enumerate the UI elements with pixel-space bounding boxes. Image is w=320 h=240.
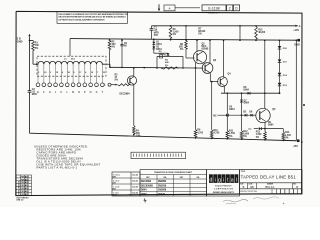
pin 1 of DL1 [38, 72, 40, 74]
resistor R11 1,500 [226, 93, 236, 139]
diode D6 [249, 111, 253, 116]
wire Q5 emitter [264, 123, 266, 129]
wire D2 to D3 [154, 49, 168, 53]
wire GND input to R1 [30, 40, 34, 42]
svg-text:R14: R14 [285, 131, 290, 134]
signature table [112, 172, 140, 196]
capacitor C6 68 [120, 39, 127, 68]
resistor R1 100 [32, 41, 40, 52]
svg-text:D664: D664 [156, 43, 162, 46]
node Q4 emitter line junction R11 [226, 92, 228, 94]
capacitor C1 .47 MFD 50V [150, 26, 160, 39]
diode chain D11 [278, 49, 288, 64]
svg-text:5%: 5% [198, 34, 201, 36]
resistor R10 4,700 [210, 82, 220, 140]
capacitor C2 .01 MFD [28, 89, 38, 96]
resistor R8 820 [179, 39, 195, 58]
svg-text:P: P [84, 90, 86, 94]
svg-text:NC: NC [213, 115, 217, 117]
diode chain D13 [278, 76, 288, 94]
diode D9 D664 output clamp [249, 122, 284, 131]
inductor coil of DL1 [37, 61, 105, 64]
svg-text:l: l [236, 177, 237, 183]
wire right column to bus [295, 39, 297, 140]
resistor R4 560 [133, 126, 142, 138]
svg-text:5%: 5% [229, 136, 232, 138]
svg-text:GND: GND [294, 43, 300, 46]
revision number box E-1198 [202, 5, 226, 15]
terminal L [65, 83, 69, 94]
pin 15 of DL1 [103, 72, 106, 74]
revision box A [164, 5, 175, 11]
wire Q2 emitter [195, 63, 197, 68]
wire NC stub [213, 115, 256, 117]
notice box [57, 12, 129, 24]
pin 3 of DL1 [50, 72, 52, 74]
terminal S [95, 83, 99, 94]
wire tap 11 of DL1 [95, 64, 97, 83]
terminal 2D GND input [17, 34, 31, 44]
svg-text:6209B: 6209B [202, 48, 209, 50]
node DL1 output junction [109, 67, 111, 69]
wire -15V bus [30, 133, 297, 141]
svg-text:DEC2894: DEC2894 [141, 180, 152, 183]
diode D5 [243, 111, 247, 116]
wire tap 9 of DL1 [84, 64, 86, 83]
notes text block [34, 144, 101, 169]
wire Q1 emitter to R4 [133, 85, 135, 126]
svg-text:1: 1 [28, 188, 29, 190]
wire GND rail [70, 39, 296, 57]
pin 17 of DL1 [79, 72, 82, 74]
svg-text:11-4-63: 11-4-63 [132, 186, 138, 189]
node diode chain junction [279, 92, 281, 94]
transistor Q4 DEC6209B [218, 72, 232, 86]
pin 18 of DL1 [68, 72, 71, 74]
resistor R2 100 [108, 39, 116, 67]
terminal J [54, 83, 58, 94]
node GND input junction [29, 40, 31, 42]
capacitor C3 82 [160, 54, 167, 58]
wire tap 5 of DL1 [60, 64, 62, 83]
wire R5 C3 section [156, 56, 184, 68]
svg-text:R: R [90, 90, 92, 94]
pin 7 of DL1 [97, 72, 99, 74]
svg-text:48,200: 48,200 [258, 31, 266, 34]
node D7 junction [241, 114, 243, 116]
resistor R5 680 [161, 60, 179, 70]
svg-text:R. Hisle: R. Hisle [112, 181, 120, 183]
wire Q1 collector [133, 67, 135, 76]
pin 5 of DL1 [73, 72, 75, 74]
svg-text:E-1198: E-1198 [208, 7, 219, 11]
svg-text:2N2894: 2N2894 [158, 180, 167, 183]
svg-text:5%: 5% [173, 34, 176, 36]
revision box D [233, 5, 239, 11]
svg-text:B: B [301, 141, 303, 144]
svg-text:DEC6209B: DEC6209B [141, 185, 153, 187]
svg-text:D664: D664 [268, 123, 274, 126]
resistor R7 68000 [185, 25, 206, 40]
svg-text:4,700: 4,700 [214, 132, 220, 135]
wire C2 to -15V bus [29, 92, 31, 133]
svg-text:-15V: -15V [293, 145, 299, 148]
svg-text:J. Smith: J. Smith [113, 186, 119, 189]
svg-text:DRB 110: DRB 110 [17, 200, 24, 202]
diode D1 D664 [152, 39, 162, 46]
wire DL1 output [105, 64, 196, 69]
svg-text:N. Burke: N. Burke [112, 175, 120, 177]
svg-text:S: S [96, 90, 98, 94]
svg-text:K: K [60, 90, 62, 94]
terminal P [83, 83, 87, 94]
terminal A +10V [293, 25, 300, 32]
dec form note [17, 197, 30, 201]
wire tap 2 of DL1 [43, 64, 45, 83]
diode D2 D664 [152, 44, 162, 51]
svg-text:5%: 5% [165, 65, 168, 67]
wire +10V rail [152, 25, 297, 27]
svg-text:1: 1 [28, 182, 29, 184]
svg-text:D664: D664 [244, 89, 250, 92]
wire tap 3 of DL1 [49, 64, 51, 83]
wire GND junction down to C2 [29, 41, 31, 91]
transistor diode conversion chart [140, 170, 207, 196]
terminal B -15V [293, 139, 303, 148]
connector pin strip [131, 152, 186, 158]
terminal K [60, 83, 64, 94]
wire Q2 collector [196, 39, 198, 52]
resistor R6 1500 [169, 25, 179, 41]
svg-text:i: i [215, 177, 216, 183]
svg-text:GND: GND [17, 40, 23, 44]
wire tap 4 of DL1 [55, 64, 57, 83]
svg-text:TITLE: TITLE [241, 171, 245, 173]
wire Q4 emitter [221, 86, 280, 93]
resistor R13 1,500 [256, 129, 267, 141]
svg-text:C O R P O R A T I O N: C O R P O R A T I O N [214, 188, 233, 191]
svg-text:MFD: MFD [32, 94, 37, 96]
terminal H [48, 83, 52, 94]
svg-text:1: 1 [28, 191, 29, 193]
wire tap 10 of DL1 [90, 64, 92, 83]
terminal F [42, 83, 46, 94]
pencil note [144, 104, 305, 204]
title block [240, 170, 303, 194]
wire Q4 collector [223, 39, 225, 77]
digital logo [207, 170, 240, 196]
wire R1 to delay line input [33, 52, 38, 66]
svg-text:1N645: 1N645 [158, 193, 166, 196]
transistor Q1 DEC2894 [120, 76, 137, 96]
revision arrow [158, 4, 160, 11]
resistor R3 47 [111, 74, 130, 85]
svg-text:D664: D664 [244, 102, 250, 105]
svg-text:DEC2894: DEC2894 [120, 93, 131, 96]
svg-text:1: 1 [28, 194, 29, 196]
svg-text:(C): (C) [249, 129, 252, 131]
wire tap 12 of DL1 [101, 64, 103, 83]
svg-text:TAPPED DELAY LINE B51: TAPPED DELAY LINE B51 [241, 175, 297, 180]
svg-text:TRANSISTOR & DIODE CONVERSION: TRANSISTOR & DIODE CONVERSION CHART [154, 171, 193, 174]
delay line DL1 dashed case [37, 56, 106, 76]
diode chain D10 [278, 40, 288, 51]
wire Q3 collector [209, 39, 211, 63]
node Q2 emitter junction [195, 67, 197, 69]
diode D8 D664 on y93 to Q5 collector [244, 87, 251, 95]
svg-text:50V: 50V [154, 35, 159, 37]
terminal L input [104, 83, 111, 86]
svg-text:N: N [78, 90, 80, 94]
svg-text:1N3606: 1N3606 [158, 190, 167, 192]
svg-text:1: 1 [28, 185, 29, 187]
wire tap 8 of DL1 [78, 64, 80, 83]
svg-text:a: a [231, 177, 234, 183]
wire tap 7 of DL1 [72, 64, 74, 83]
svg-text:5%: 5% [243, 136, 246, 138]
svg-text:g: g [218, 177, 221, 183]
svg-text:DRN: DRN [113, 176, 116, 178]
svg-text:5%: 5% [285, 137, 288, 139]
svg-text:A: A [299, 25, 301, 28]
node Q1 emitter bus junction [133, 134, 135, 136]
pin 19 of DL1 [56, 72, 59, 74]
revision line [175, 7, 200, 9]
svg-text:5%: 5% [180, 49, 183, 51]
svg-text:+10V: +10V [293, 29, 299, 32]
diode D4 D664 [226, 106, 235, 117]
svg-text:T. Holt: T. Holt [113, 192, 119, 195]
pin 4 of DL1 [62, 71, 64, 74]
node Q5 emitter junction [264, 128, 266, 130]
svg-text:2: 2 [229, 7, 231, 11]
wire Q3 emitter [210, 73, 218, 81]
svg-text:11-4-63: 11-4-63 [132, 180, 138, 183]
svg-text:H: H [49, 90, 51, 94]
svg-text:i: i [223, 177, 224, 183]
diode D3 D664 [159, 51, 170, 56]
svg-text:1: 1 [28, 176, 29, 178]
resistor R9 4,700 [194, 68, 204, 139]
svg-text:D664: D664 [229, 108, 235, 111]
terminal E [36, 83, 40, 94]
pin 20 of DL1 [44, 72, 47, 74]
transistor Q2 DEC6209B [193, 43, 208, 63]
svg-text:E: E [37, 90, 39, 94]
svg-text:PARTS LIST A-PL-B51-0-1: PARTS LIST A-PL-B51-0-1 [37, 166, 78, 170]
transistor Q5 DEC6534 [256, 108, 276, 122]
svg-text:11-5-63: 11-5-63 [132, 193, 138, 195]
resistor R14 1,500 [282, 129, 292, 142]
svg-text:D664: D664 [141, 189, 147, 192]
resistor R12 5,600 [240, 115, 250, 140]
svg-text:5%: 5% [256, 137, 259, 139]
pin 16 of DL1 [91, 72, 94, 74]
svg-text:PRINTED CIRCUIT REV.: PRINTED CIRCUIT REV. [240, 191, 257, 193]
svg-text:2N3209: 2N3209 [158, 185, 167, 187]
terminal M [71, 83, 75, 94]
pin 6 of DL1 [85, 72, 87, 74]
wire tap 6 of DL1 [66, 64, 68, 83]
revision box 2 [227, 5, 233, 11]
node C1 GND junction [153, 39, 155, 41]
svg-text:D662: D662 [141, 194, 147, 196]
wire Q5 collector [264, 40, 266, 109]
terminal T [100, 83, 104, 94]
svg-text:E Q U I P M E N T: E Q U I P M E N T [215, 185, 232, 187]
resistor R15 48200 [255, 25, 266, 41]
wire +10V to GND link at 240 [239, 25, 241, 41]
svg-text:1: 1 [28, 179, 29, 181]
node Q3 emitter junction R10 [211, 81, 213, 83]
svg-text:d: d [209, 177, 212, 183]
svg-text:4,700: 4,700 [197, 131, 203, 134]
first used on table [16, 175, 31, 196]
diode D7 D664 [240, 92, 250, 115]
terminal D GND output [294, 39, 300, 47]
terminal N [77, 83, 81, 94]
transistor Q3 DEC6209B [202, 60, 217, 73]
diode chain D12 [278, 62, 288, 77]
wire Q3 base [196, 67, 204, 69]
wire tap 1 of DL1 [37, 64, 39, 83]
terminal R [89, 83, 93, 94]
svg-text:11-2-63: 11-2-63 [132, 175, 138, 177]
